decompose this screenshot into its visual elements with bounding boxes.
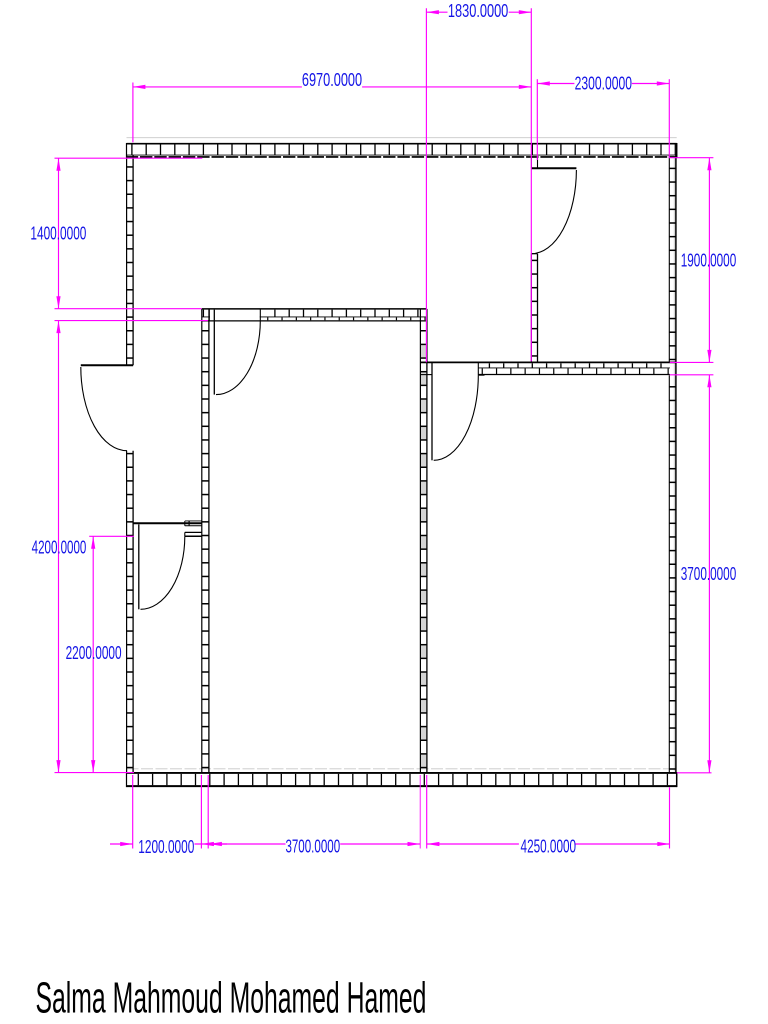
- svg-text:1900.0000: 1900.0000: [681, 250, 737, 270]
- svg-text:Salma Mahmoud Mohamed Hamed: Salma Mahmoud Mohamed Hamed: [36, 975, 427, 1023]
- svg-text:6970.0000: 6970.0000: [302, 70, 362, 90]
- svg-text:4250.0000: 4250.0000: [521, 837, 577, 857]
- svg-text:1200.0000: 1200.0000: [138, 837, 194, 857]
- svg-text:1830.0000: 1830.0000: [448, 1, 508, 21]
- svg-text:3700.0000: 3700.0000: [681, 564, 737, 584]
- svg-text:4200.0000: 4200.0000: [32, 538, 87, 558]
- svg-text:3700.0000: 3700.0000: [285, 837, 340, 857]
- svg-text:1400.0000: 1400.0000: [30, 224, 86, 244]
- svg-text:2300.0000: 2300.0000: [575, 74, 632, 94]
- svg-text:2200.0000: 2200.0000: [66, 643, 122, 663]
